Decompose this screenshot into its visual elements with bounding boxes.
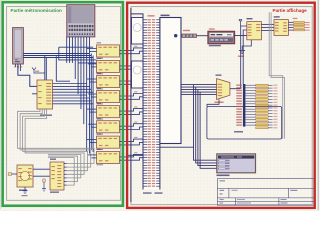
wire bundle U1 to bus <box>23 47 96 81</box>
resistor R3 <box>182 30 197 38</box>
capacitor C1 <box>8 173 17 175</box>
capacitor C2 with ground <box>42 179 46 192</box>
counter IC U6 <box>97 88 120 105</box>
U3-U4 wires <box>261 24 274 30</box>
U3 wires <box>87 46 143 54</box>
green annotation box <box>3 2 123 206</box>
counter IC U5 <box>97 73 120 90</box>
gate IC1A <box>132 18 144 45</box>
decoder U3 <box>247 18 262 40</box>
IC U1 pins <box>67 37 90 154</box>
grey bus <box>269 12 284 139</box>
grey bus loops <box>18 109 94 185</box>
U5 wires <box>87 76 143 84</box>
IC2 pin ladder underlay <box>143 18 160 190</box>
vertical bus <box>91 54 93 153</box>
wire into ladder left <box>126 154 143 156</box>
RV1 (vertical module) <box>13 28 24 64</box>
resistor network RN2 <box>256 84 278 128</box>
gate glyph B <box>133 66 141 74</box>
left page edge <box>0 0 2 209</box>
ground GND1 <box>238 40 251 57</box>
U4 wires <box>88 61 143 69</box>
counter IC U3 <box>97 42 120 59</box>
U10 wires <box>88 152 143 160</box>
counter IC U9 <box>97 134 120 151</box>
terminal pin <box>239 19 242 26</box>
counter IC U7 <box>97 103 120 120</box>
wire IC2 to R3 <box>181 35 182 37</box>
wire R3 to DS1 <box>197 35 209 37</box>
right sheet border <box>131 7 312 205</box>
U9 wires <box>87 137 143 145</box>
wire ladder right <box>160 146 194 148</box>
svg-text:Partie métronomisation: Partie métronomisation <box>11 8 63 13</box>
U2 second left pin <box>32 93 37 95</box>
wires U10 to U11 <box>33 169 50 176</box>
display DS1 <box>208 31 235 43</box>
wire DS1 to U3 <box>235 35 247 37</box>
red annotation box <box>127 3 315 208</box>
wires bundle down to U2 top <box>45 56 47 81</box>
counter U11 <box>50 159 64 193</box>
RV1 pins <box>15 64 20 71</box>
mux U6 <box>216 75 230 100</box>
U2 label <box>40 115 52 116</box>
U6 bottom wire <box>207 99 219 106</box>
right sheet outer border <box>317 0 319 210</box>
connector pin column <box>236 84 255 127</box>
junction dot <box>174 34 177 37</box>
U11 right pins <box>64 164 67 186</box>
IC2 pin ladder <box>143 18 160 190</box>
IC U1 (DIP module) <box>67 5 95 37</box>
IC2 bottom labels <box>143 192 163 194</box>
U7 wires <box>87 106 143 114</box>
title block <box>217 179 313 206</box>
gate glyph A <box>133 24 141 32</box>
svg-text:Partie affichage: Partie affichage <box>273 8 308 13</box>
IC2 label <box>161 15 170 17</box>
RV1 bottom pin labels <box>14 66 22 67</box>
right sheet left bus line <box>130 8 132 202</box>
counter IC U10 <box>97 149 120 166</box>
U8 wires <box>88 122 143 130</box>
resistor network RN1 <box>293 18 310 31</box>
latch U4 <box>274 16 289 35</box>
left sheet border <box>7 7 121 201</box>
counter IC U8 <box>97 118 120 135</box>
U6 out wire <box>230 88 241 90</box>
gate IC1B <box>132 61 144 88</box>
wire RV1 to U2 left pin <box>18 64 37 86</box>
U6 wires <box>88 91 143 99</box>
display module box <box>207 107 282 140</box>
U10 label <box>19 190 27 191</box>
LCD LM016L <box>217 154 256 173</box>
counter IC U4 <box>97 58 120 75</box>
U2 right wires <box>53 84 94 104</box>
timer U10 (555) <box>17 165 33 187</box>
crystal X1 <box>32 68 45 74</box>
U6 label below <box>215 102 224 104</box>
U3 left wires down <box>241 26 247 89</box>
display module label <box>234 131 243 133</box>
IC2 body <box>160 18 181 144</box>
mux U2 <box>37 80 53 109</box>
LCD label <box>217 175 230 177</box>
U4 to RN1 wires <box>288 22 293 30</box>
ground below U10 <box>22 187 28 196</box>
wire top to ladder <box>131 14 143 18</box>
DS1 labels <box>209 28 221 46</box>
IC2 ladder top label <box>148 15 155 16</box>
wire bundle IC2 right <box>181 85 217 169</box>
